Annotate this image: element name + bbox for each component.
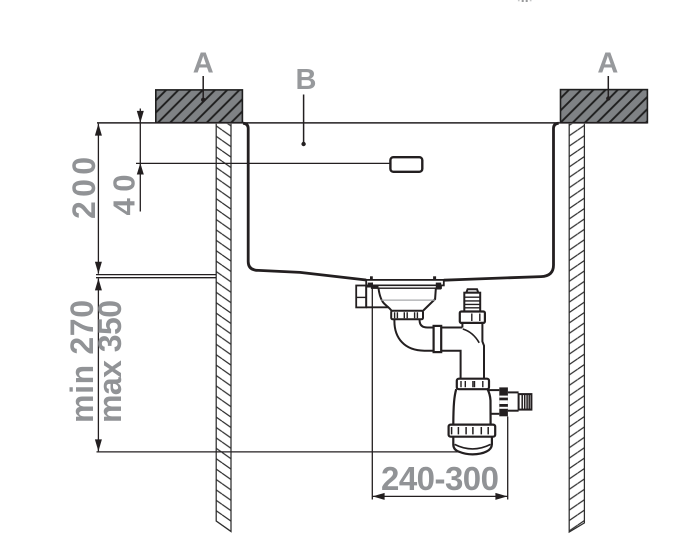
extension lines between 200 and min/max [96,275,216,278]
countertop block A right [561,90,648,123]
dishwasher barb fitting [464,289,480,311]
svg-text:max 350: max 350 [92,300,128,423]
tailpipe elbow to horizontal pipe [394,319,433,350]
cropped text remnant dots top edge [518,0,532,2]
svg-text:200: 200 [66,157,102,219]
overflow elbow box [356,286,378,308]
countertop block A left [156,90,243,123]
extension line bottom (max350) [97,451,459,453]
strainer flange bar [366,280,444,288]
outlet pipe [508,392,519,410]
strainer nut [391,311,423,320]
leader line A right [606,76,610,101]
dimension 40 stem and arrows [137,109,144,212]
svg-text:240-300: 240-300 [381,460,499,497]
tee vertical pipe [462,323,484,379]
svg-text:A: A [193,48,214,80]
dimension 200 stem and arrows [95,124,102,274]
dimension 240-300 line and arrows [372,493,507,500]
worktop surface line [97,122,647,124]
dimension min270/max350 stem and arrows [95,278,102,451]
svg-text:A: A [597,48,618,80]
outlet tube from bottle [488,390,499,414]
outlet thread [519,394,532,410]
flange clamp screws [370,276,436,281]
svg-text:40: 40 [107,175,142,216]
dimension 240-300 extension lines [372,283,507,500]
cabinet wall strip left [216,124,231,532]
leader line A left [201,76,205,102]
bottle top nut [457,379,489,390]
pipe coupling [434,326,442,352]
outlet nut (knurled) [499,387,508,416]
overflow hole marker [390,157,422,172]
siphon bottle body [453,389,490,424]
dimension 40 leader line to overflow [136,162,390,164]
horizontal pipe to tee [441,328,462,379]
sink basin B outline [243,123,559,280]
leader line B [301,95,305,147]
cabinet wall strip right [569,124,584,532]
flange clamp clips [368,283,441,290]
svg-text:B: B [296,64,317,96]
bottle bottom cup [453,437,492,455]
barb nut [460,312,485,323]
strainer cup [366,288,436,311]
bottle bottom nut [449,425,496,437]
